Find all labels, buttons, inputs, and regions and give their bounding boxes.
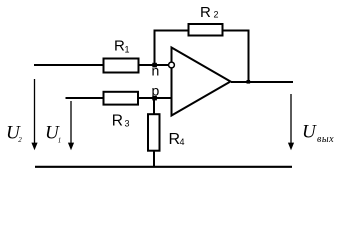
wire bottom rail [35, 166, 292, 168]
wire feedback top right segment [223, 30, 250, 32]
wire R4 to bottom rail [153, 150, 155, 168]
op-amp inverting input bubble [169, 62, 175, 68]
label U2 [6, 123, 22, 145]
svg-text:U: U [302, 122, 317, 143]
resistor R4 [148, 114, 185, 151]
svg-text:3: 3 [125, 118, 130, 128]
wire input 1 from source U2 to R1 [34, 64, 104, 66]
node output junction dot [247, 80, 251, 84]
wire feedback riser from node n [154, 30, 156, 66]
node p junction dot [152, 96, 157, 101]
svg-text:R: R [169, 131, 181, 148]
arrow for U1 [68, 101, 74, 150]
node n junction dot [152, 63, 157, 68]
svg-text:p: p [152, 82, 160, 98]
wire input 2 from source U1 to R3 [66, 97, 105, 99]
label U1 [45, 123, 61, 145]
resistor R1 [104, 38, 139, 73]
wire feedback drop to output [248, 30, 250, 83]
resistor R2 [189, 4, 223, 36]
svg-text:R: R [112, 113, 123, 130]
svg-text:вых: вых [317, 134, 334, 145]
svg-text:1: 1 [58, 137, 62, 145]
arrow for U out [288, 94, 294, 150]
svg-text:2: 2 [18, 136, 22, 144]
wire node p down to R4 [153, 98, 155, 115]
svg-text:2: 2 [214, 9, 219, 19]
svg-text:R: R [200, 4, 211, 21]
svg-text:1: 1 [125, 45, 130, 55]
label U vyh [302, 122, 334, 146]
wire R1 to inverting input bubble [138, 64, 169, 66]
resistor R3 [104, 92, 139, 130]
wire feedback top left segment [154, 30, 189, 32]
svg-text:4: 4 [180, 137, 185, 147]
arrow for U2 [31, 79, 37, 150]
wire op-amp output [231, 81, 293, 83]
wire R3 to noninverting input [137, 97, 172, 99]
svg-text:R: R [114, 38, 125, 55]
op-amp U1 triangle [172, 48, 231, 116]
